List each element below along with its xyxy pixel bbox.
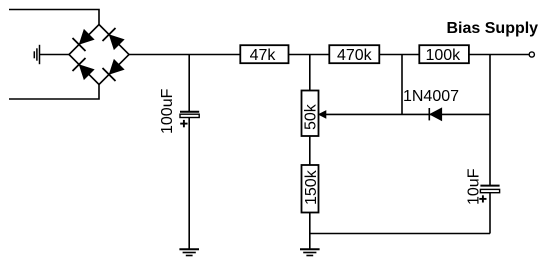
svg-text:100k: 100k: [425, 47, 461, 64]
svg-text:150k: 150k: [303, 169, 320, 205]
svg-text:10uF: 10uF: [465, 168, 482, 205]
potentiometer wiper arrow: [319, 111, 326, 118]
resistor R3 150k: [302, 165, 319, 213]
ground (left, rotated): [34, 45, 39, 64]
diode D1 top-left (cathode at left vertex): [73, 30, 94, 51]
wire wiper / diode line: [325, 113, 490, 115]
svg-text:1N4007: 1N4007: [403, 88, 459, 105]
polarity + of C1: [180, 120, 187, 127]
svg-text:100uF: 100uF: [159, 88, 176, 134]
wire pot to R3: [309, 136, 311, 165]
capacitor C1 100uF: [180, 112, 199, 118]
potentiometer R2 50k body: [302, 91, 319, 137]
wire pot top lead: [309, 55, 311, 91]
wire main rail segment 2 (47k to 470k): [289, 54, 330, 56]
diode D5 1N4007 (cathode left): [429, 108, 441, 120]
capacitor C2 10uF: [480, 186, 499, 193]
diode D3 bottom-left (cathode at left vertex): [73, 58, 94, 79]
ground (below R3): [300, 249, 320, 255]
wire main rail segment 4 (100k to terminal): [469, 54, 529, 56]
wire AC bottom input: [9, 85, 99, 100]
wire AC top input: [9, 10, 99, 25]
svg-text:47k: 47k: [250, 47, 277, 64]
wire C2 bottom lead: [489, 193, 491, 234]
resistor R4 470k: [329, 45, 379, 63]
wire ground to bridge left vertex: [40, 54, 69, 56]
wire C1 bottom lead: [188, 118, 190, 250]
svg-text:50k: 50k: [303, 103, 320, 130]
svg-text:470k: 470k: [337, 47, 373, 64]
wire R3 bottom lead: [309, 213, 311, 250]
diode D2 top-right (cathode at top vertex): [103, 28, 124, 49]
polarity + of C2: [479, 195, 486, 202]
resistor R1 47k: [240, 45, 288, 63]
svg-text:Bias Supply: Bias Supply: [447, 20, 539, 37]
wire main rail segment 3 (470k to 100k): [379, 54, 419, 56]
bridge rectifier diamond: [69, 25, 129, 85]
wire C1 top lead: [188, 55, 190, 112]
wire C2 top lead: [489, 55, 491, 186]
output terminal circle: [529, 52, 534, 57]
wire node between 470k and 100k down to diode line: [401, 55, 403, 115]
resistor R5 100k: [419, 45, 469, 63]
diode D4 bottom-right (cathode at bottom vertex): [103, 60, 124, 81]
ground (below C1): [179, 249, 199, 255]
wire main rail segment 1 (bridge to 47k): [129, 54, 241, 56]
wire bottom return (node to C2): [310, 233, 490, 235]
